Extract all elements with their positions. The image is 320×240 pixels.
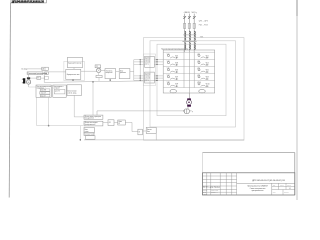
svg-text:Задающий генератор: Задающий генератор [68, 61, 82, 64]
svg-text:FU1 – FU3: FU1 – FU3 [199, 25, 208, 27]
svg-text:VD4: VD4 [206, 63, 209, 65]
svg-text:Изм Лист № докум. Подп. Дата: Изм Лист № докум. Подп. Дата [203, 186, 220, 188]
inner unit enclosure [157, 44, 226, 116]
step-up transformer label box [27, 72, 47, 75]
signature table texts [203, 186, 220, 195]
middle unit enclosure [150, 41, 236, 127]
output choke L1 [170, 90, 176, 93]
wires bus to driver DR2 [134, 76, 145, 81]
block K current sensor [146, 127, 156, 133]
svg-text:Масшт.: Масшт. [287, 185, 292, 187]
svg-text:Ф1: Ф1 [109, 121, 111, 124]
svg-text:БП: БП [37, 78, 39, 80]
wire A to B [73, 68, 75, 70]
svg-text:вала двигателя: вала двигателя [85, 118, 95, 120]
svg-text:нижних: нижних [145, 76, 150, 78]
svg-text:VD5: VD5 [175, 70, 178, 72]
wires DR2 to bridge [154, 76, 163, 81]
wire J to K [142, 130, 146, 132]
transistor VT4 with diode VD4 [197, 61, 209, 66]
block H2 load current sensor [84, 121, 103, 126]
svg-text:Н.контр.: Н.контр. [203, 194, 208, 196]
transistor VT2 with diode VD2 [197, 54, 209, 59]
wire B to summer [81, 70, 97, 72]
svg-text:И: И [139, 132, 141, 134]
block D decoupling [119, 69, 130, 79]
top-left reference stamp box [11, 0, 46, 3]
svg-text:50 Гц: 50 Гц [192, 12, 198, 14]
block B pulse shaper [66, 69, 81, 79]
svg-text:моста: моста [145, 64, 149, 66]
svg-text:ДТ: ДТ [42, 69, 44, 71]
svg-text:собств. нужд: собств. нужд [68, 92, 77, 94]
summer input box [95, 65, 101, 68]
svg-text:ДП2.545.05.05.07 (05.10.05.02): ДП2.545.05.05.07 (05.10.05.02) ЭЗ [252, 180, 285, 182]
svg-text:Разраб.: Разраб. [203, 189, 208, 191]
phase wires L1 L2 L3 upper [185, 14, 195, 24]
driver block DR2 [145, 72, 155, 83]
svg-text:р: р [192, 111, 193, 113]
document title text [247, 185, 268, 192]
svg-text:Блок: Блок [85, 129, 88, 131]
label 1 obsh [21, 68, 28, 71]
transformer TV1 primary windings [185, 31, 196, 41]
motor M1 lower terminal [187, 105, 191, 107]
wire D to driver bus [130, 71, 134, 73]
wire circle down [29, 84, 36, 87]
wire bridge to motor [188, 93, 190, 99]
pump outlet tick [190, 111, 193, 113]
svg-text:развязки: развязки [120, 72, 126, 74]
block H4 frequency regulator [84, 133, 95, 140]
bridge DC bus wires [184, 50, 194, 93]
motor M1 upper terminal [187, 98, 191, 100]
block H3 comparison [84, 127, 94, 133]
feedback wire from sensor [44, 75, 157, 83]
transistor VT7 with diode VD7 [167, 75, 179, 80]
transistor VT6 with diode VD6 [197, 68, 209, 73]
svg-text:К1: К1 [119, 123, 121, 125]
svg-text:ДП2.545.05.05.07.05.10.05.02.Э: ДП2.545.05.05.07.05.10.05.02.ЭЗ [12, 0, 45, 3]
svg-text:Транзисторный преобразователь: Транзисторный преобразователь [161, 47, 188, 50]
bridge row wires [163, 52, 215, 87]
sensor box DN [45, 72, 49, 75]
svg-text:Блок питания: Блок питания [68, 91, 77, 93]
wire from H1 up [96, 111, 98, 115]
svg-text:Повышающий трансформатор: Повышающий трансформатор [28, 72, 47, 75]
output choke L2 [199, 90, 205, 93]
svg-text:Петров А.А.: Петров А.А. [211, 191, 219, 194]
outer unit enclosure [144, 38, 245, 141]
svg-text:моста: моста [145, 80, 149, 82]
list cells [272, 190, 295, 196]
svg-text:Датчик: Датчик [147, 129, 152, 131]
junction dot [48, 125, 50, 127]
svg-text:VD9: VD9 [175, 84, 178, 86]
svg-text:Иванов И.В.: Иванов И.В. [211, 189, 219, 191]
signature table grid [203, 173, 237, 195]
transistor VT8 with diode VD8 [197, 75, 209, 80]
svg-text:VD10: VD10 [206, 84, 210, 86]
svg-text:принципиальная: принципиальная [252, 190, 264, 192]
title block outer box [203, 173, 295, 195]
svg-text:Преобразователь ЧЭ5АТ1М: Преобразователь ЧЭ5АТ1М [247, 185, 268, 188]
motor M1 [187, 100, 192, 105]
svg-text:тока: тока [147, 131, 150, 133]
net label 380V 50Hz [183, 12, 197, 14]
wire G1 down-left [36, 97, 38, 125]
block G1 frequency-pulse modulator [36, 85, 51, 97]
wire K down to bottom bus [155, 133, 157, 140]
wire circle up [28, 74, 30, 77]
transistor VT1 with diode VD1 [167, 54, 179, 59]
frame bottom-right vertical [294, 153, 296, 195]
svg-text:VD1: VD1 [175, 55, 178, 57]
transistor converter box [163, 50, 215, 93]
wire G1 down-right [48, 97, 50, 125]
pump symbol [184, 109, 189, 114]
svg-text:Комп.: Комп. [119, 121, 123, 123]
block J AND gate [138, 129, 143, 135]
svg-text:VD8: VD8 [206, 77, 209, 79]
junction dot under pulse shaper [72, 79, 74, 81]
microphone connector X1 [22, 78, 25, 83]
wire to comparison block [37, 125, 83, 127]
wire feedback down to speed sensor [92, 81, 93, 115]
svg-text:блок ЗГ: блок ЗГ [41, 95, 46, 97]
block C amplifier [105, 69, 116, 79]
svg-text:блок СУ: блок СУ [41, 93, 46, 95]
secondary output wires [185, 50, 195, 53]
transformer TV1 tap line [183, 34, 196, 36]
wire BQ to PB1 [30, 77, 36, 79]
svg-text:преобразователя: преобразователя [85, 124, 96, 126]
wire H2 to I1 [103, 122, 108, 124]
transformer TV1 core [183, 40, 197, 43]
block I1 filter [108, 120, 114, 126]
wire H3 to H4 [88, 132, 90, 134]
sheet left border line [9, 3, 10, 198]
sensor BQ1 circle [26, 80, 30, 84]
wires bus to driver DR1 [134, 60, 145, 65]
lit massa masshtab cells [272, 183, 295, 195]
wire summer to C [101, 69, 105, 71]
transistor VT10 with diode VD10 [197, 82, 209, 87]
summing junction [97, 68, 101, 73]
wire G3 to speed sensor [74, 95, 84, 117]
svg-text:Масса: Масса [280, 185, 284, 187]
small box PB2 [45, 76, 49, 79]
box below summer [96, 73, 102, 81]
svg-text:Схема электрическая: Схема электрическая [250, 188, 266, 190]
frame above title block [203, 152, 295, 154]
document number cell [237, 180, 295, 183]
frame left of title block [202, 153, 204, 195]
block H1 speed sensor [84, 115, 103, 120]
svg-text:узел УЗ: узел УЗ [55, 91, 60, 93]
junction dots on enclosure edge [156, 59, 157, 81]
driver bus wire A [133, 60, 135, 81]
sensor BQ1 terminal box [27, 77, 30, 79]
junction dots on driver bus [140, 59, 141, 81]
driver bus wire [139, 60, 141, 81]
block G3 aux power supply [67, 85, 82, 96]
svg-text:<1 общ: <1 общ [21, 68, 28, 71]
wire motor to pump [187, 107, 189, 109]
wire C to D [116, 71, 120, 73]
svg-text:VD7: VD7 [175, 77, 178, 79]
setpoint arrow wire [97, 110, 185, 112]
small box PB1 [37, 77, 41, 80]
wire label to DT box [27, 68, 42, 70]
svg-text:Усилитель: Усилитель [106, 70, 113, 72]
svg-text:Лист: Лист [273, 191, 276, 193]
sensor box DT [42, 67, 49, 70]
wire drop to bottom bus [80, 126, 81, 141]
block A master oscillator [67, 58, 82, 68]
junction dot under amplifier [109, 79, 111, 81]
svg-text:Листов 1: Листов 1 [284, 191, 289, 193]
oscillator container [64, 61, 84, 80]
svg-text:VD2: VD2 [206, 55, 209, 57]
svg-text:верхних: верхних [145, 60, 150, 62]
circuit breaker QF1-QF3 [183, 16, 195, 19]
svg-text:мощности: мощности [106, 72, 113, 74]
fuse FU1-FU3 [184, 23, 196, 31]
transistor VT3 with diode VD3 [167, 61, 179, 66]
transistor VT9 with diode VD9 [167, 82, 179, 87]
svg-text:У1: У1 [96, 66, 98, 68]
svg-text:Датчик скорости вращения: Датчик скорости вращения [85, 116, 102, 118]
block G2 protection [53, 85, 66, 97]
svg-text:VD6: VD6 [206, 70, 209, 72]
svg-text:QF1 – QF3: QF1 – QF3 [199, 20, 208, 22]
svg-text:Блок: Блок [120, 70, 123, 72]
svg-text:Датчик тока нагрузки: Датчик тока нагрузки [85, 122, 98, 124]
transistor VT5 with diode VD5 [167, 68, 179, 73]
wire PB1 to PB2 [41, 77, 45, 79]
bottom feedback bus [84, 139, 244, 141]
svg-text:Формирователь имп.: Формирователь имп. [67, 73, 81, 76]
driver container [143, 54, 155, 86]
transformer TV1 secondary windings [185, 42, 196, 50]
wire I2 to J [125, 122, 138, 131]
svg-text:Частотно-импульсный: Частотно-импульсный [37, 85, 52, 88]
driver block DR1 [145, 56, 155, 67]
wire I1 to I2 [114, 122, 118, 124]
page right edge [296, 0, 298, 200]
svg-text:VD3: VD3 [175, 63, 178, 65]
wires DR1 to bridge [154, 60, 163, 65]
block I2 comparator [118, 120, 126, 125]
wire H4 to bottom bus [83, 139, 85, 141]
wire DN to B [48, 71, 66, 73]
